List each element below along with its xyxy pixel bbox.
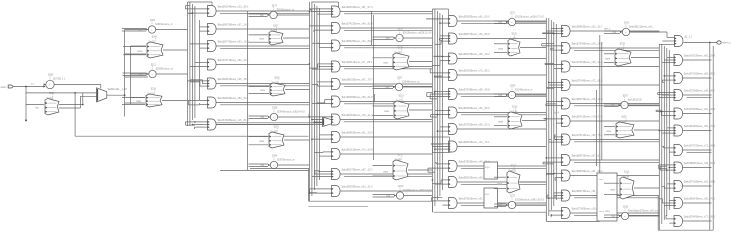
wire G5out output to port [683, 42, 716, 44]
cell X34 [383, 154, 408, 180]
cell X54 [610, 171, 634, 199]
wire X41 output [520, 47, 546, 49]
svg-text:state: state [260, 89, 266, 92]
wire U50 output [630, 31, 660, 33]
wire G23 inputs [309, 63, 332, 69]
wire G28 output [340, 153, 432, 155]
svg-text:$abc$8630$new_n61_,60.2: $abc$8630$new_n61_,60.2 [572, 170, 603, 173]
svg-text:state: state [259, 140, 265, 143]
svg-text:$236: $236 [275, 77, 281, 79]
wire U23 output [278, 116, 310, 118]
svg-text:$353: $353 [621, 116, 627, 118]
wire G14 inputs [187, 80, 207, 86]
wire G24 inputs [312, 82, 332, 86]
wire U40 input [494, 21, 506, 24]
svg-text:$abc$8525$new_n22_,80.2: $abc$8525$new_n22_,80.2 [342, 40, 373, 43]
wire U10 input [122, 29, 146, 32]
svg-text:$abc$8121$l: $abc$8121$l [628, 99, 642, 102]
wire G10 output [216, 11, 309, 13]
wire G26 output [340, 120, 432, 122]
wire G29 inputs [312, 171, 332, 177]
wire G47 inputs [543, 157, 562, 164]
wire G54 output [683, 130, 712, 132]
and gate G34 [449, 89, 491, 100]
wire G25 output [340, 102, 432, 104]
and gate G21 [332, 23, 374, 34]
wire X44 output [520, 181, 546, 183]
wire U20 input [249, 14, 268, 17]
wire X11 inputs [123, 47, 146, 55]
wire bottom trunk column 5 [658, 196, 713, 230]
wire top trunk column 2 [311, 2, 338, 8]
svg-text:ram_1: ram_1 [604, 28, 611, 31]
wire G34 output [457, 94, 546, 96]
wire loop rect column 3 [432, 137, 449, 153]
svg-text:alarm_o: alarm_o [723, 42, 732, 45]
wire bus column 1 [187, 2, 199, 126]
buffer U45 [499, 196, 545, 209]
wire G56 output [683, 167, 712, 169]
svg-text:$ss$10: $ss$10 [510, 110, 518, 113]
wire U25 output [278, 164, 310, 166]
svg-text:$abc$9151$new_n73_,53.8: $abc$9151$new_n73_,53.8 [342, 149, 373, 152]
wire X33 inputs [373, 106, 394, 115]
wire G26 inputs [309, 114, 332, 123]
svg-text:$abc$8165$new_n59_,95.6: $abc$8165$new_n59_,95.6 [459, 107, 490, 110]
svg-text:$309$reduce_or$26:19-0:0: $309$reduce_or$26:19-0:0 [403, 189, 433, 192]
cell X53 [606, 116, 634, 138]
and gate G48 [562, 170, 604, 181]
svg-text:$abc$8776$new_n63_,18.4: $abc$8776$new_n63_,18.4 [218, 41, 249, 44]
and gate G31 [449, 33, 491, 44]
wire G55 inputs [662, 146, 674, 152]
wire n1 stub to U12 [125, 74, 148, 77]
wire G12 inputs [190, 44, 208, 48]
and gate G47 [562, 155, 604, 166]
svg-text:$abc$9502$new_n24_,73.1: $abc$9502$new_n24_,73.1 [459, 141, 490, 144]
wire G37 inputs [431, 144, 449, 150]
svg-text:$ss$13: $ss$13 [618, 120, 626, 123]
wire G31 output [457, 38, 546, 40]
svg-text:$abc$9316$new_n25_,38.1: $abc$9316$new_n25_,38.1 [218, 78, 249, 81]
and gate G20 [332, 6, 374, 17]
slice box S1 [484, 162, 498, 179]
wire X51 output [631, 57, 659, 59]
and gate G58 [674, 198, 716, 209]
wire buffer U1 output [54, 85, 101, 89]
wire G14 output [216, 84, 309, 86]
wire G40 inputs [543, 28, 562, 34]
svg-text:$abc$9033$new_n97_,78.7: $abc$9033$new_n97_,78.7 [342, 79, 373, 82]
and gate G11 [208, 24, 250, 35]
wire G47 output [570, 160, 659, 162]
and gate G13 [208, 59, 250, 70]
svg-text:$abc$9847$new_n54_,86.8: $abc$9847$new_n54_,86.8 [459, 33, 490, 36]
wire U20 output [277, 14, 309, 16]
wire G33 output [457, 74, 546, 76]
svg-text:$310: $310 [512, 106, 518, 108]
wire G20 inputs [309, 9, 332, 14]
and gate G24 [332, 79, 374, 90]
svg-text:$2..1.1: $2..1.1 [685, 36, 693, 39]
svg-text:$2(0:: $2(0: [485, 167, 490, 169]
wire U32 input [373, 86, 394, 89]
svg-text:state: state [136, 100, 142, 103]
and gate G54 [674, 125, 716, 136]
svg-text:$366: $366 [152, 36, 158, 38]
and gate G46 [562, 134, 604, 145]
wire bus column 5 [659, 44, 669, 230]
wire G16 output [216, 124, 309, 126]
wire net n1 vertical [124, 30, 126, 117]
svg-text:$abc$9078$new_n37_,14.2: $abc$9078$new_n37_,14.2 [218, 24, 249, 27]
wire U32 output [403, 86, 433, 88]
wire X51 inputs [604, 54, 614, 63]
wire G50 output [683, 59, 712, 61]
wire bottom trunk column 2 [309, 169, 433, 207]
svg-text:$abc$8870$new_n97_,81.7: $abc$8870$new_n97_,81.7 [572, 155, 603, 158]
wire X1 output a [59, 93, 84, 106]
wire G41 inputs [542, 44, 562, 50]
wire G210 output [340, 190, 432, 192]
wire G30 inputs [426, 19, 448, 24]
svg-text:$abc$9375$new_n68_,18.2: $abc$9375$new_n68_,18.2 [459, 53, 490, 56]
wire input to buffer U1 [13, 83, 45, 88]
svg-text:state: state [259, 38, 265, 41]
wire X22 output [285, 89, 309, 91]
wire n1 stub to X13 [125, 98, 145, 104]
slice box S2 [484, 188, 498, 208]
svg-text:$abc$9466$new_n56_,70.2: $abc$9466$new_n56_,70.2 [684, 125, 715, 128]
cell X33 [384, 95, 409, 119]
svg-text:$abc$7619$new_n39_,94.4: $abc$7619$new_n39_,94.4 [572, 61, 603, 64]
cell X21 [259, 25, 283, 45]
svg-text:$abc$7288$new_n36_,88.7: $abc$7288$new_n36_,88.7 [684, 90, 715, 93]
and gate G14 [208, 78, 250, 89]
svg-text:ram: ram [599, 178, 603, 181]
wire U25 input [249, 164, 269, 167]
wire G410 inputs [549, 211, 562, 217]
svg-text:$294$reduce_or$10:4-0:0: $294$reduce_or$10:4-0:0 [277, 111, 305, 114]
svg-text:state: state [605, 58, 611, 61]
big box S3 [597, 173, 617, 221]
svg-text:$abc$7248$new_n99_,49.8: $abc$7248$new_n99_,49.8 [459, 89, 490, 92]
and gate G16 [208, 119, 250, 130]
and gate G32 [449, 53, 491, 64]
wire G42 output [570, 66, 659, 68]
svg-text:$273$1.1.1: $273$1.1.1 [53, 78, 66, 81]
wire net n2 vertical [129, 46, 131, 105]
input port alarm_in [1, 85, 14, 89]
wire branch down from input [25, 86, 27, 122]
and gate G45 [562, 116, 604, 127]
and gate G38 [449, 161, 491, 172]
wire G39 inputs [432, 179, 449, 184]
svg-text:$228: $228 [620, 43, 626, 45]
svg-text:$319$reduce_or$42:35-0:0: $319$reduce_or$42:35-0:0 [515, 199, 545, 202]
svg-text:$301: $301 [150, 20, 156, 22]
and gate G57 [674, 181, 716, 192]
svg-text:$307: $307 [397, 78, 403, 80]
wire U35 output [404, 195, 433, 197]
svg-text:$212: $212 [151, 65, 157, 67]
svg-text:$abc$9363$new_n84_,60.1: $abc$9363$new_n84_,60.1 [218, 97, 249, 100]
svg-text:state: state [498, 48, 504, 51]
svg-text:$291$reduce_or: $291$reduce_or [277, 9, 295, 12]
wire G35 inputs [431, 110, 449, 117]
and gate G29 [332, 169, 374, 180]
wire X34 output [408, 169, 432, 171]
svg-text:$ss$3: $ss$3 [271, 29, 278, 32]
wire U55 output [629, 215, 660, 217]
wire G5out inputs [630, 32, 674, 45]
and gate G10 [208, 6, 250, 17]
svg-text:$340: $340 [511, 165, 517, 167]
svg-text:$311$reduce_or$34:27-0:0: $311$reduce_or$34:27-0:0 [515, 16, 544, 19]
wire bottom trunk column 4 [546, 212, 599, 221]
wire G40 output [570, 30, 659, 32]
wire G58 output [683, 202, 712, 204]
wire U52 input [604, 104, 619, 107]
svg-text:$abc$8716$new_n78_,57.6: $abc$8716$new_n78_,57.6 [572, 116, 603, 119]
and gate G28 [332, 149, 374, 160]
wire G22 inputs [312, 43, 332, 47]
svg-text:$abc$7945$new_n29_,20.3: $abc$7945$new_n29_,20.3 [572, 43, 603, 46]
wire G43 output [570, 84, 659, 86]
wire G53 inputs [656, 110, 674, 115]
svg-text:$abc$8286$new_n69_,84.8: $abc$8286$new_n69_,84.8 [342, 96, 373, 99]
svg-text:$abc$9194$new_n22_,56.1: $abc$9194$new_n22_,56.1 [218, 6, 249, 9]
wire G36 inputs [437, 127, 449, 132]
svg-text:$abc$7840$new_n77_,56.3: $abc$7840$new_n77_,56.3 [684, 216, 715, 219]
and gate G59 [674, 216, 716, 227]
svg-text:$271: $271 [510, 13, 516, 15]
and gate G12 [208, 41, 250, 52]
wire G46 output [570, 140, 659, 142]
wire G59 inputs [666, 215, 674, 223]
svg-text:state: state [384, 110, 390, 113]
wire X11 output [163, 49, 187, 51]
wire G36 output [457, 128, 546, 130]
and gate G37 [449, 141, 491, 152]
svg-text:$ss/4..: $ss/4.. [554, 113, 561, 115]
svg-text:$371: $371 [398, 154, 404, 156]
svg-text:$ss$2: $ss$2 [148, 92, 155, 95]
wire G34 inputs [427, 91, 449, 99]
and gate G410 [562, 208, 604, 219]
and gate G50 [674, 55, 716, 66]
mux M2 [323, 117, 332, 127]
wire trunk into mux M2 [217, 123, 323, 125]
and gate G27 [332, 132, 374, 143]
cell X41 [498, 33, 520, 56]
svg-text:state: state [137, 50, 143, 53]
wire G23 output [340, 67, 432, 69]
svg-text:$abc$7415$new_n56_,88.1: $abc$7415$new_n56_,88.1 [684, 73, 715, 76]
svg-text:state: state [383, 62, 389, 65]
wire X13 output [162, 100, 187, 102]
wire G310 output [457, 203, 546, 205]
wire X33 output [409, 109, 432, 111]
buffer U12 [139, 65, 173, 78]
wire G31 inputs [435, 36, 449, 44]
wire U42 output [516, 94, 547, 96]
and gate G15 [208, 97, 250, 108]
svg-text:$219: $219 [398, 186, 404, 188]
buffer U40 [499, 13, 545, 26]
svg-text:$ss$5: $ss$5 [271, 130, 278, 133]
and gate G56 [674, 162, 716, 173]
svg-text:$ss$11: $ss$11 [509, 169, 517, 172]
and gate G53 [674, 108, 716, 119]
wire G22 output [340, 46, 432, 48]
wire G52 output [683, 95, 712, 97]
wire G20 output [340, 12, 432, 14]
wire X21 output [283, 37, 309, 39]
svg-text:$ss$4: $ss$4 [272, 81, 279, 84]
buffer U42 [499, 86, 533, 99]
svg-text:$abc$7905$new_n15_,81.3: $abc$7905$new_n15_,81.3 [218, 119, 249, 122]
wire G59 output [683, 220, 712, 222]
svg-text:$abc$9311$new_n17_,89.4: $abc$9311$new_n17_,89.4 [342, 61, 373, 64]
svg-text:$abc$7608$new_n91_,42.6: $abc$7608$new_n91_,42.6 [684, 108, 715, 111]
wire X1 output b [59, 96, 97, 108]
svg-text:$ss$6: $ss$6 [395, 51, 402, 54]
wire vertical pair column 4 to 5 [597, 35, 602, 173]
wire G50 inputs [662, 57, 674, 62]
svg-text:$abc$7049$new_n72_,85.3: $abc$7049$new_n72_,85.3 [572, 80, 603, 83]
buffer U25 [261, 156, 295, 169]
wire G49 inputs [547, 193, 561, 199]
wire bottom trunk column 3 [432, 201, 546, 212]
svg-text:carry: carry [605, 210, 611, 213]
svg-text:$238: $238 [398, 29, 404, 31]
svg-text:state: state [610, 189, 616, 192]
wire X34 inputs [373, 166, 393, 176]
wire G43 inputs [547, 82, 562, 89]
cell X13 [136, 88, 162, 107]
svg-text:$abc$7000$new_n82_,29.9: $abc$7000$new_n82_,29.9 [684, 55, 715, 58]
svg-text:$409: $409 [510, 86, 516, 88]
buffer U52 [611, 96, 642, 109]
svg-text:$abc$7514$new_n98_,75.1: $abc$7514$new_n98_,75.1 [572, 134, 603, 137]
svg-text:$abc$9285$new_n83_,50.6: $abc$9285$new_n83_,50.6 [459, 16, 490, 19]
svg-text:$346: $346 [272, 156, 278, 158]
svg-text:$304$reduce_or: $304$reduce_or [402, 81, 420, 84]
wire G44 inputs [546, 101, 562, 105]
svg-text:$ss$8: $ss$8 [395, 158, 402, 161]
and gate G33 [449, 70, 491, 81]
svg-text:alarm: alarm [1, 86, 7, 89]
svg-text:$281$reduce_or: $281$reduce_or [155, 23, 173, 26]
wire n2 stub to X11 [125, 46, 146, 54]
svg-text:$abc$8263$new_n81_,97.3: $abc$8263$new_n81_,97.3 [342, 6, 373, 9]
svg-text:$abc$8105$new_n70_,99.2: $abc$8105$new_n70_,99.2 [459, 70, 490, 73]
wire label near mux M2 [554, 113, 561, 115]
wire X43 output [522, 120, 546, 122]
wire G15 inputs [188, 100, 207, 105]
wire X24 output [284, 139, 309, 141]
svg-text:$297$reduce_or: $297$reduce_or [277, 159, 295, 162]
svg-text:$301$reduce_or$18:11-0:0: $301$reduce_or$18:11-0:0 [403, 32, 432, 35]
buffer U30 [386, 29, 432, 42]
wire G410 output [570, 213, 659, 215]
wire G33 inputs [430, 69, 448, 77]
wire X53 inputs [604, 127, 615, 135]
wire mux M1 output [107, 94, 125, 96]
and gate G310 [449, 198, 491, 209]
svg-text:$274: $274 [272, 6, 278, 8]
svg-text:$abc$7418$new_n53_,43.8: $abc$7418$new_n53_,43.8 [684, 181, 715, 184]
cell X43 [498, 106, 522, 129]
svg-text:$abc$7472$new_n72_,69.8: $abc$7472$new_n72_,69.8 [684, 145, 715, 148]
wire G39 output [457, 182, 546, 184]
wire top trunk column 1 [187, 2, 212, 8]
wire G48 output [570, 175, 659, 177]
wire U45 output [516, 204, 547, 206]
wire X31 inputs [373, 58, 393, 67]
svg-text:$abc$9096$new_n63_,31.6: $abc$9096$new_n63_,31.6 [342, 186, 373, 189]
wire U42 input [494, 94, 506, 97]
wire G28 inputs [314, 152, 331, 156]
svg-text:$ss$1: $ss$1 [149, 40, 156, 43]
svg-text:$213: $213 [624, 171, 630, 173]
cell X24 [259, 126, 284, 148]
svg-text:$325: $325 [398, 47, 404, 49]
and gate G41 [562, 43, 604, 54]
buffer U50 [613, 23, 655, 36]
wire X21 inputs [249, 35, 269, 42]
wire G49 output [570, 196, 659, 198]
and gate G43 [562, 80, 604, 91]
svg-text:$abc$8076$new_n46_,10.3: $abc$8076$new_n46_,10.3 [572, 98, 603, 101]
wire to cell X1 [26, 104, 44, 106]
wire G48 inputs [547, 173, 562, 181]
wire G210 inputs [309, 189, 332, 194]
svg-text:$ss$9: $ss$9 [510, 37, 517, 40]
cell X51 [605, 43, 631, 66]
wire G12 output [216, 46, 309, 48]
and gate G22 [332, 40, 374, 51]
buffer U32 [386, 78, 420, 91]
wire U55 input [604, 215, 619, 218]
wire G24 output [340, 84, 432, 86]
wire bus column 2 [309, 2, 319, 201]
svg-text:$abc$9893$new_n63_,55.7: $abc$9893$new_n63_,55.7 [572, 26, 603, 29]
and gate G42 [562, 61, 604, 72]
wire G46 inputs [549, 135, 562, 142]
wire G45 output [570, 120, 659, 122]
and gate G23 [332, 61, 373, 72]
svg-text:state: state [383, 170, 389, 173]
svg-text:$abc$9863$new_n41_,20.5: $abc$9863$new_n41_,20.5 [342, 132, 373, 135]
and gate G25 [332, 96, 374, 107]
wire X54 inputs [604, 183, 619, 194]
wire U50 input [604, 31, 620, 34]
svg-text:state: state [606, 130, 612, 133]
svg-text:$abc$9834$new_n30_,76.1: $abc$9834$new_n30_,76.1 [684, 198, 715, 201]
buffer U10 [139, 20, 173, 33]
and gate G40 [562, 26, 604, 37]
and gate G52 [674, 90, 716, 101]
svg-text:$210: $210 [399, 95, 405, 97]
wire vertical left column 3 [372, 11, 375, 160]
svg-text:$218: $218 [151, 88, 157, 90]
wire mux input trunk [26, 92, 97, 94]
and gate G36 [449, 124, 491, 135]
svg-text:$abc$8981$new_n49_,20.3: $abc$8981$new_n49_,20.3 [684, 162, 715, 165]
svg-text:$314$reduce_or: $314$reduce_or [515, 89, 533, 92]
